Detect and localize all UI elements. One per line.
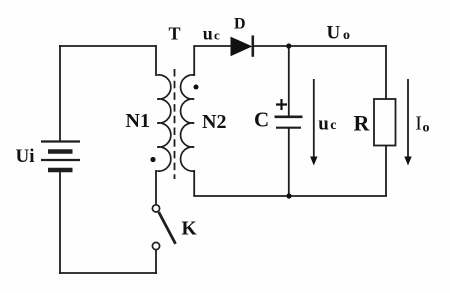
svg-text:c: c xyxy=(330,118,336,133)
svg-text:u: u xyxy=(203,24,213,44)
svg-text:U: U xyxy=(327,22,341,43)
svg-text:N2: N2 xyxy=(202,111,226,133)
svg-text:I: I xyxy=(415,113,422,135)
svg-text:T: T xyxy=(169,24,181,44)
svg-text:u: u xyxy=(318,113,329,134)
svg-text:c: c xyxy=(214,28,220,43)
svg-text:Ui: Ui xyxy=(16,146,35,167)
svg-text:D: D xyxy=(234,16,246,33)
svg-text:o: o xyxy=(423,121,430,136)
svg-text:C: C xyxy=(254,107,269,131)
svg-text:o: o xyxy=(343,28,350,43)
svg-text:K: K xyxy=(182,218,198,239)
svg-text:R: R xyxy=(354,111,371,136)
svg-text:N1: N1 xyxy=(126,110,150,132)
